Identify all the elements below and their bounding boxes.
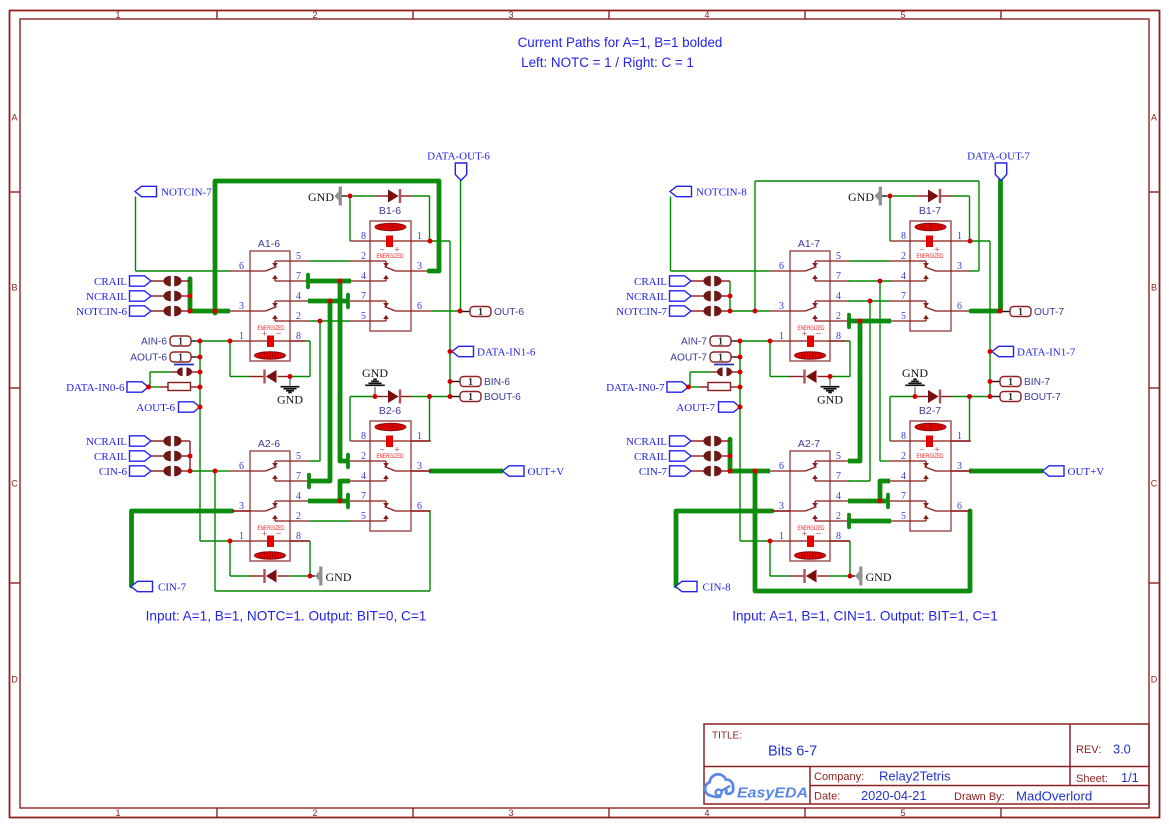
svg-text:GND: GND bbox=[326, 570, 352, 584]
svg-text:NCRAIL: NCRAIL bbox=[86, 436, 127, 448]
svg-text:B: B bbox=[1151, 283, 1157, 293]
diode under A1-7 bbox=[803, 370, 805, 384]
frame tick column x=1001 bbox=[1000, 11, 1002, 20]
connector pair NCRAIL bbox=[151, 295, 165, 297]
svg-text:5: 5 bbox=[836, 251, 841, 262]
connector pair CRAIL bbox=[691, 455, 705, 457]
frame tick column x=609 bbox=[608, 11, 610, 20]
svg-text:OUT+V: OUT+V bbox=[1068, 466, 1105, 478]
svg-text:8: 8 bbox=[901, 231, 906, 242]
svg-text:1/1: 1/1 bbox=[1121, 770, 1139, 785]
wire B1 gnd-diode loop bbox=[342, 195, 348, 197]
svg-text:A: A bbox=[11, 113, 17, 123]
svg-text:NCRAIL: NCRAIL bbox=[626, 436, 667, 448]
svg-text:3: 3 bbox=[417, 261, 422, 272]
bold wire down to A2.7 bbox=[309, 301, 330, 481]
svg-text:NOTCIN-7: NOTCIN-7 bbox=[161, 187, 212, 199]
svg-text:ENERGIZED: ENERGIZED bbox=[258, 525, 285, 532]
bold wire A1.7 - B1.4 bbox=[306, 279, 351, 284]
svg-text:5: 5 bbox=[900, 808, 905, 818]
svg-text:Relay2Tetris: Relay2Tetris bbox=[879, 769, 951, 784]
input flag CRAIL row y=281 bbox=[130, 276, 152, 286]
wire A1 coil-diode loop bbox=[769, 341, 771, 377]
svg-text:2: 2 bbox=[312, 808, 317, 818]
wire NOTCIN-7 to A1 pin6 bbox=[135, 197, 137, 272]
svg-text:GND: GND bbox=[866, 570, 892, 584]
svg-text:4: 4 bbox=[901, 471, 906, 482]
ground earth A1-7 bbox=[829, 377, 831, 386]
svg-text:Left: NOTC = 1 / Right: C = 1: Left: NOTC = 1 / Right: C = 1 bbox=[521, 55, 694, 70]
svg-text:ENERGIZED: ENERGIZED bbox=[917, 453, 944, 460]
svg-text:OUT-7: OUT-7 bbox=[1034, 307, 1064, 318]
svg-text:CRAIL: CRAIL bbox=[634, 276, 667, 288]
svg-text:2: 2 bbox=[361, 451, 366, 462]
ground earth B2-6 bbox=[374, 387, 376, 395]
connector pair CIN-6 bbox=[151, 470, 165, 472]
bold CIN flag riser bbox=[676, 511, 772, 586]
junction dots bbox=[188, 294, 193, 299]
svg-text:TITLE:: TITLE: bbox=[712, 731, 742, 742]
net flag DATA-IN1-6 bbox=[452, 346, 474, 356]
bold riser to top run bbox=[215, 181, 439, 313]
net flag NOTCIN-7 bbox=[135, 186, 157, 196]
diode at B1-7 bbox=[939, 189, 941, 203]
svg-text:1: 1 bbox=[1008, 377, 1013, 388]
svg-text:8: 8 bbox=[361, 431, 366, 442]
svg-text:7: 7 bbox=[361, 491, 366, 502]
svg-text:MadOverlord: MadOverlord bbox=[1016, 789, 1092, 804]
svg-text:DATA-IN0-6: DATA-IN0-6 bbox=[66, 382, 125, 394]
svg-text:ENERGIZED: ENERGIZED bbox=[377, 453, 404, 460]
svg-text:2: 2 bbox=[836, 311, 841, 322]
svg-text:Input: A=1, B=1, NOTC=1. Outpu: Input: A=1, B=1, NOTC=1. Output: BIT=0, … bbox=[146, 609, 427, 624]
port AIN-7 bbox=[710, 336, 731, 346]
svg-text:4: 4 bbox=[901, 271, 906, 282]
svg-text:CIN-7: CIN-7 bbox=[639, 466, 668, 478]
svg-text:7: 7 bbox=[836, 471, 841, 482]
svg-text:6: 6 bbox=[779, 461, 784, 472]
diode under A2-6 bbox=[263, 569, 265, 583]
input flag NCRAIL row y=441 bbox=[670, 436, 692, 446]
svg-text:D: D bbox=[1151, 675, 1158, 685]
svg-text:DATA-IN1-7: DATA-IN1-7 bbox=[1017, 346, 1076, 358]
connector pair NCRAIL bbox=[151, 440, 165, 442]
svg-text:NCRAIL: NCRAIL bbox=[86, 291, 127, 303]
svg-text:2: 2 bbox=[901, 451, 906, 462]
bold wire A1.2 - B1.5 bbox=[847, 319, 891, 324]
svg-text:AOUT-7: AOUT-7 bbox=[676, 402, 715, 414]
bold wire down to A2.5 bbox=[848, 321, 860, 461]
svg-text:1: 1 bbox=[239, 331, 244, 342]
svg-text:Current Paths for A=1, B=1 bol: Current Paths for A=1, B=1 bolded bbox=[518, 35, 723, 50]
svg-text:D: D bbox=[11, 675, 18, 685]
net flag CIN-8 bbox=[676, 581, 698, 591]
svg-text:ENERGIZED: ENERGIZED bbox=[258, 325, 285, 332]
svg-text:Company:: Company: bbox=[814, 771, 864, 783]
svg-text:1: 1 bbox=[178, 353, 183, 364]
input flag DATA-IN0-7 bbox=[667, 382, 689, 392]
svg-text:A2-7: A2-7 bbox=[798, 438, 820, 450]
svg-text:BOUT-7: BOUT-7 bbox=[1024, 392, 1061, 403]
wire A1.2 - B1.5 bbox=[310, 320, 350, 322]
port AOUT-6 bbox=[170, 352, 191, 362]
net flag DATA-OUT-6 bbox=[455, 163, 466, 181]
input flag NOTCIN-7 row y=311 bbox=[670, 306, 692, 316]
svg-text:3.0: 3.0 bbox=[1113, 742, 1131, 757]
svg-text:1: 1 bbox=[239, 531, 244, 542]
bold bottom run to B2.6 bbox=[755, 471, 970, 591]
port AOUT-7 bbox=[710, 352, 731, 362]
wire A2 coil-diode loop bbox=[769, 541, 771, 576]
svg-text:4: 4 bbox=[296, 291, 301, 302]
wire AIN port to A1.1 bbox=[731, 340, 740, 342]
svg-text:CIN-6: CIN-6 bbox=[99, 466, 128, 478]
overline mark bbox=[714, 364, 734, 366]
net flag AOUT-7 (lower) bbox=[719, 402, 741, 412]
svg-text:1: 1 bbox=[957, 231, 962, 242]
svg-text:NOTCIN-8: NOTCIN-8 bbox=[696, 187, 747, 199]
bold wire A2.4 - B2.7 bbox=[848, 499, 888, 504]
svg-text:AIN-6: AIN-6 bbox=[141, 337, 167, 348]
input flag NCRAIL row y=296 bbox=[670, 291, 692, 301]
port AIN-6 bbox=[170, 336, 191, 346]
svg-text:B2-6: B2-6 bbox=[379, 405, 401, 417]
svg-text:7: 7 bbox=[901, 491, 906, 502]
port OUT-6 bbox=[470, 307, 491, 317]
svg-text:4: 4 bbox=[836, 291, 841, 302]
relay B1-6 bbox=[350, 205, 431, 331]
svg-text:2: 2 bbox=[901, 251, 906, 262]
frame tick row y=192 bbox=[10, 191, 21, 193]
input flag CIN-7 row y=471 bbox=[670, 466, 692, 476]
ground chassis A2-6 bbox=[315, 571, 319, 581]
wire B1.1 to right column bbox=[970, 240, 990, 242]
svg-text:1: 1 bbox=[178, 337, 183, 348]
svg-text:1: 1 bbox=[417, 231, 422, 242]
net flag OUT+V bbox=[1043, 466, 1065, 476]
svg-text:1: 1 bbox=[1018, 307, 1023, 318]
svg-text:AIN-7: AIN-7 bbox=[681, 337, 707, 348]
bold wire A2.4 - B2.7 bbox=[308, 499, 348, 504]
diode at B1-6 bbox=[399, 189, 401, 203]
svg-text:5: 5 bbox=[901, 311, 906, 322]
svg-text:REV:: REV: bbox=[1076, 744, 1101, 756]
relay B1-7 bbox=[890, 205, 971, 331]
wire DATA-OUT vertical bbox=[460, 181, 462, 312]
ground earth A1-6 bbox=[289, 377, 291, 386]
svg-text:4: 4 bbox=[704, 808, 709, 818]
connector pair CIN-7 bbox=[691, 470, 705, 472]
wire A1.5 - B1.2 bbox=[310, 260, 350, 262]
wires DATA-IN0 branch bbox=[689, 386, 701, 388]
bold wire DATA-OUT vertical bbox=[971, 180, 1001, 311]
wire bottom run to B2.6 bbox=[214, 471, 216, 591]
svg-text:4: 4 bbox=[361, 271, 366, 282]
svg-text:Input: A=1, B=1, CIN=1. Output: Input: A=1, B=1, CIN=1. Output: BIT=1, C… bbox=[732, 609, 998, 624]
svg-text:6: 6 bbox=[417, 301, 422, 312]
net flag NOTCIN-8 bbox=[670, 186, 692, 196]
input flag NCRAIL row y=441 bbox=[130, 436, 152, 446]
svg-text:4: 4 bbox=[361, 471, 366, 482]
svg-text:2020-04-21: 2020-04-21 bbox=[861, 788, 926, 803]
svg-text:1: 1 bbox=[718, 337, 723, 348]
svg-text:Date:: Date: bbox=[814, 791, 840, 803]
frame tick column x=413 bbox=[412, 11, 414, 20]
wire A1.4 - B1.7 bbox=[848, 300, 890, 302]
svg-text:A1-7: A1-7 bbox=[798, 238, 820, 250]
net flag OUT+V bbox=[503, 466, 525, 476]
net flag AOUT-6 (lower) bbox=[179, 402, 201, 412]
wire lower trio vertical bbox=[189, 441, 191, 471]
svg-text:GND: GND bbox=[817, 393, 843, 407]
svg-text:5: 5 bbox=[836, 451, 841, 462]
connector pair NOTCIN-7 bbox=[691, 310, 705, 312]
input flag CIN-6 row y=471 bbox=[130, 466, 152, 476]
connector pair CRAIL bbox=[151, 455, 165, 457]
wire down to A2.7 bbox=[869, 301, 871, 481]
svg-text:1: 1 bbox=[779, 331, 784, 342]
svg-text:4: 4 bbox=[836, 491, 841, 502]
svg-text:5: 5 bbox=[361, 311, 366, 322]
svg-text:C: C bbox=[11, 479, 18, 489]
connector pair CRAIL bbox=[691, 280, 705, 282]
svg-text:GND: GND bbox=[277, 393, 303, 407]
port BIN-6 bbox=[460, 377, 481, 387]
input flag NOTCIN-6 row y=311 bbox=[130, 306, 152, 316]
input flag CRAIL row y=281 bbox=[670, 276, 692, 286]
svg-text:OUT+V: OUT+V bbox=[528, 466, 565, 478]
svg-text:ENERGIZED: ENERGIZED bbox=[377, 253, 404, 260]
svg-text:CRAIL: CRAIL bbox=[634, 451, 667, 463]
wire down to A2.5 bbox=[310, 321, 320, 461]
svg-text:NOTCIN-7: NOTCIN-7 bbox=[616, 306, 667, 318]
svg-text:GND: GND bbox=[902, 366, 928, 380]
svg-text:Drawn By:: Drawn By: bbox=[954, 791, 1005, 803]
frame tick column x=217 bbox=[216, 11, 218, 20]
svg-text:A: A bbox=[1151, 113, 1157, 123]
svg-text:1: 1 bbox=[718, 353, 723, 364]
svg-text:4: 4 bbox=[296, 491, 301, 502]
svg-text:1: 1 bbox=[478, 307, 483, 318]
svg-text:ENERGIZED: ENERGIZED bbox=[917, 253, 944, 260]
svg-text:B2-7: B2-7 bbox=[919, 405, 941, 417]
svg-text:1: 1 bbox=[779, 531, 784, 542]
wire B2 gnd-diode row bbox=[889, 397, 891, 442]
wire A2.2 - B2.5 bbox=[310, 520, 350, 522]
wire B2 gnd-diode row bbox=[349, 397, 351, 442]
svg-text:5: 5 bbox=[296, 251, 301, 262]
wires DATA-IN0 branch bbox=[149, 386, 161, 388]
svg-text:NCRAIL: NCRAIL bbox=[626, 291, 667, 303]
connector pair CRAIL bbox=[151, 280, 165, 282]
input flag CRAIL row y=456 bbox=[130, 451, 152, 461]
svg-text:DATA-IN1-6: DATA-IN1-6 bbox=[477, 346, 536, 358]
svg-text:5: 5 bbox=[296, 451, 301, 462]
svg-text:5: 5 bbox=[900, 10, 905, 20]
svg-text:A1-6: A1-6 bbox=[258, 238, 280, 250]
svg-text:3: 3 bbox=[239, 301, 244, 312]
svg-text:3: 3 bbox=[508, 10, 513, 20]
wire vertical port column bbox=[199, 341, 201, 541]
bold wire A1.4 - B1.7 bbox=[308, 299, 348, 304]
port BIN-7 bbox=[1000, 377, 1021, 387]
svg-text:DATA-IN0-7: DATA-IN0-7 bbox=[606, 382, 665, 394]
EasyEDA logo bbox=[705, 774, 808, 801]
svg-text:C: C bbox=[1151, 479, 1158, 489]
svg-text:1: 1 bbox=[468, 377, 473, 388]
svg-text:EasyEDA: EasyEDA bbox=[737, 785, 808, 802]
connector pair NOTCIN-6 bbox=[151, 310, 165, 312]
wire B1.1 to right column bbox=[430, 240, 450, 242]
resistor DATA-IN0-7 row bbox=[708, 383, 731, 391]
svg-text:1: 1 bbox=[1008, 392, 1013, 403]
relay A2-7 bbox=[770, 438, 850, 561]
relay B2-7 bbox=[890, 405, 971, 531]
svg-text:1: 1 bbox=[468, 392, 473, 403]
svg-text:7: 7 bbox=[836, 271, 841, 282]
svg-text:BOUT-6: BOUT-6 bbox=[484, 392, 521, 403]
input flag CRAIL row y=456 bbox=[670, 451, 692, 461]
wire A1.7 - B1.4 bbox=[848, 280, 891, 282]
svg-text:2: 2 bbox=[296, 511, 301, 522]
port BOUT-6 bbox=[460, 392, 481, 402]
svg-text:3: 3 bbox=[779, 301, 784, 312]
svg-text:3: 3 bbox=[508, 808, 513, 818]
wire NOTC input trio vertical bbox=[729, 281, 731, 311]
resistor DATA-IN0-6 row bbox=[168, 383, 191, 391]
relay B2-6 bbox=[350, 405, 431, 531]
svg-text:7: 7 bbox=[901, 291, 906, 302]
svg-text:5: 5 bbox=[361, 511, 366, 522]
bold net NOTC input trio bbox=[188, 279, 193, 311]
svg-text:6: 6 bbox=[779, 261, 784, 272]
diode under A1-6 bbox=[263, 370, 265, 384]
svg-text:ENERGIZED: ENERGIZED bbox=[798, 325, 825, 332]
svg-text:6: 6 bbox=[239, 261, 244, 272]
svg-text:2: 2 bbox=[312, 10, 317, 20]
wire riser to top run bbox=[754, 181, 756, 311]
wire B1 gnd-diode loop bbox=[882, 195, 888, 197]
bold wire A2.2 - B2.5 bbox=[847, 519, 891, 524]
net flag DATA-IN1-7 bbox=[992, 346, 1014, 356]
input flag NCRAIL row y=296 bbox=[130, 291, 152, 301]
svg-text:A2-6: A2-6 bbox=[258, 438, 280, 450]
frame tick row y=388 bbox=[10, 387, 21, 389]
wire vertical port column bbox=[739, 341, 741, 541]
svg-text:8: 8 bbox=[901, 431, 906, 442]
connector pair NCRAIL bbox=[691, 440, 705, 442]
ground chassis A2-7 bbox=[855, 571, 859, 581]
input flag DATA-IN0-6 bbox=[127, 382, 149, 392]
svg-text:AOUT-7: AOUT-7 bbox=[670, 353, 707, 364]
svg-text:AOUT-6: AOUT-6 bbox=[136, 402, 175, 414]
bold net CIN input trio bbox=[728, 439, 733, 471]
svg-text:B1-6: B1-6 bbox=[379, 205, 401, 217]
svg-text:B1-7: B1-7 bbox=[919, 205, 941, 217]
port BOUT-7 bbox=[1000, 392, 1021, 402]
junction dots bbox=[728, 294, 733, 299]
wire A2 coil-diode loop bbox=[229, 541, 231, 576]
svg-text:DATA-OUT-7: DATA-OUT-7 bbox=[967, 151, 1030, 163]
svg-text:GND: GND bbox=[308, 190, 334, 204]
ground chassis B1-7 bbox=[875, 191, 879, 201]
title block bbox=[704, 724, 1149, 804]
svg-text:DATA-OUT-6: DATA-OUT-6 bbox=[427, 151, 490, 163]
svg-text:CIN-8: CIN-8 bbox=[703, 581, 732, 593]
port OUT-7 bbox=[1010, 307, 1031, 317]
bold CIN flag riser bbox=[132, 511, 233, 586]
wire A1 coil-diode loop bbox=[229, 341, 231, 377]
overline mark bbox=[174, 364, 194, 366]
svg-text:Sheet:: Sheet: bbox=[1076, 773, 1108, 785]
ground chassis B1-6 bbox=[335, 191, 339, 201]
svg-text:6: 6 bbox=[957, 301, 962, 312]
svg-text:1: 1 bbox=[115, 808, 120, 818]
diode under A2-7 bbox=[803, 569, 805, 583]
relay A1-6 bbox=[230, 238, 310, 361]
net flag DATA-OUT-7 bbox=[995, 163, 1006, 181]
svg-text:4: 4 bbox=[704, 10, 709, 20]
svg-text:CRAIL: CRAIL bbox=[94, 276, 127, 288]
svg-text:1: 1 bbox=[115, 10, 120, 20]
connector pair DATA-IN row bbox=[717, 367, 723, 376]
connector pair NCRAIL bbox=[691, 295, 705, 297]
svg-text:GND: GND bbox=[848, 190, 874, 204]
relay A1-7 bbox=[770, 238, 850, 361]
svg-text:2: 2 bbox=[296, 311, 301, 322]
svg-text:8: 8 bbox=[361, 231, 366, 242]
svg-text:3: 3 bbox=[957, 261, 962, 272]
frame tick column x=805 bbox=[804, 11, 806, 20]
diode at B2-7 bbox=[939, 390, 941, 404]
svg-text:2: 2 bbox=[836, 511, 841, 522]
svg-text:7: 7 bbox=[361, 291, 366, 302]
bold wire OUT+V bbox=[429, 469, 503, 474]
bold wire OUT+V bbox=[969, 469, 1043, 474]
wire AIN port to A1.1 bbox=[191, 340, 200, 342]
connector pair DATA-IN row bbox=[177, 367, 183, 376]
svg-text:ENERGIZED: ENERGIZED bbox=[798, 525, 825, 532]
relay A2-6 bbox=[230, 438, 310, 561]
svg-text:BIN-7: BIN-7 bbox=[1024, 377, 1050, 388]
net flag CIN-7 bbox=[131, 581, 153, 591]
svg-text:GND: GND bbox=[362, 366, 388, 380]
frame tick row y=583 bbox=[10, 582, 21, 584]
svg-text:OUT-6: OUT-6 bbox=[494, 307, 524, 318]
diode at B2-6 bbox=[399, 390, 401, 404]
svg-text:5: 5 bbox=[901, 511, 906, 522]
svg-text:AOUT-6: AOUT-6 bbox=[130, 353, 167, 364]
svg-text:2: 2 bbox=[361, 251, 366, 262]
svg-text:B: B bbox=[11, 283, 17, 293]
svg-text:7: 7 bbox=[296, 271, 301, 282]
svg-text:BIN-6: BIN-6 bbox=[484, 377, 510, 388]
wire A1.5 - B1.2 bbox=[850, 260, 890, 262]
wire down to B2.2 bbox=[879, 281, 881, 461]
svg-text:Bits 6-7: Bits 6-7 bbox=[768, 744, 817, 760]
ground earth B2-7 bbox=[914, 387, 916, 395]
bold wire down to B2.2 bbox=[340, 281, 348, 461]
svg-text:CIN-7: CIN-7 bbox=[158, 581, 187, 593]
svg-text:7: 7 bbox=[296, 471, 301, 482]
svg-text:NOTCIN-6: NOTCIN-6 bbox=[76, 306, 127, 318]
svg-text:CRAIL: CRAIL bbox=[94, 451, 127, 463]
wire NOTCIN-8 to A1 pin6 bbox=[670, 197, 672, 272]
svg-text:6: 6 bbox=[239, 461, 244, 472]
